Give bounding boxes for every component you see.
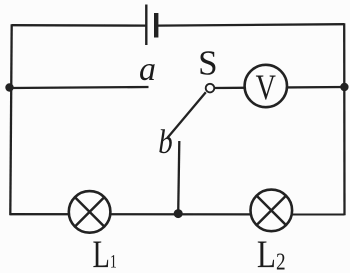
svg-text:L2: L2 [257, 233, 286, 273]
lamp L1: cross [75, 197, 104, 226]
voltmeter U1: circle body [245, 65, 287, 107]
switch S: pivot contact (open circle) [206, 84, 215, 93]
svg-text:L1: L1 [93, 234, 117, 273]
svg-text:V: V [256, 66, 276, 106]
wire: bottom side [10, 213, 344, 215]
svg-text:a: a [139, 51, 156, 88]
wire: top side (right segment, battery to right corner) [158, 24, 344, 25]
junction: right node [340, 83, 348, 91]
wire: top side (left segment, left corner to battery) [12, 24, 146, 27]
junction: bottom node [174, 209, 183, 218]
svg-text:S: S [198, 44, 217, 83]
wire: left side [10, 24, 11, 215]
wire: switch pivot to voltmeter to right node [213, 87, 345, 88]
svg-text:b: b [158, 123, 172, 161]
battery cell: long positive plate [145, 5, 147, 46]
battery cell: short thick negative plate [154, 13, 158, 38]
lamp L2: circle body [250, 190, 292, 232]
junction: left node [5, 83, 13, 91]
lamp L1: circle body [69, 191, 111, 233]
wire: branch from contact b to bottom node [178, 141, 179, 214]
switch S: blade [168, 92, 206, 138]
wire: right side [343, 23, 346, 215]
wire: branch to contact a (from left node) [11, 87, 149, 88]
lamp L2: cross [257, 196, 286, 225]
